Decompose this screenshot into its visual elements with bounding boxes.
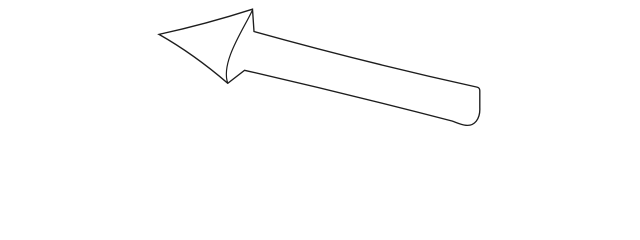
inner contour curve of arrowhead (226, 10, 252, 83)
part outline: arrow-shaped molding (159, 9, 480, 125)
